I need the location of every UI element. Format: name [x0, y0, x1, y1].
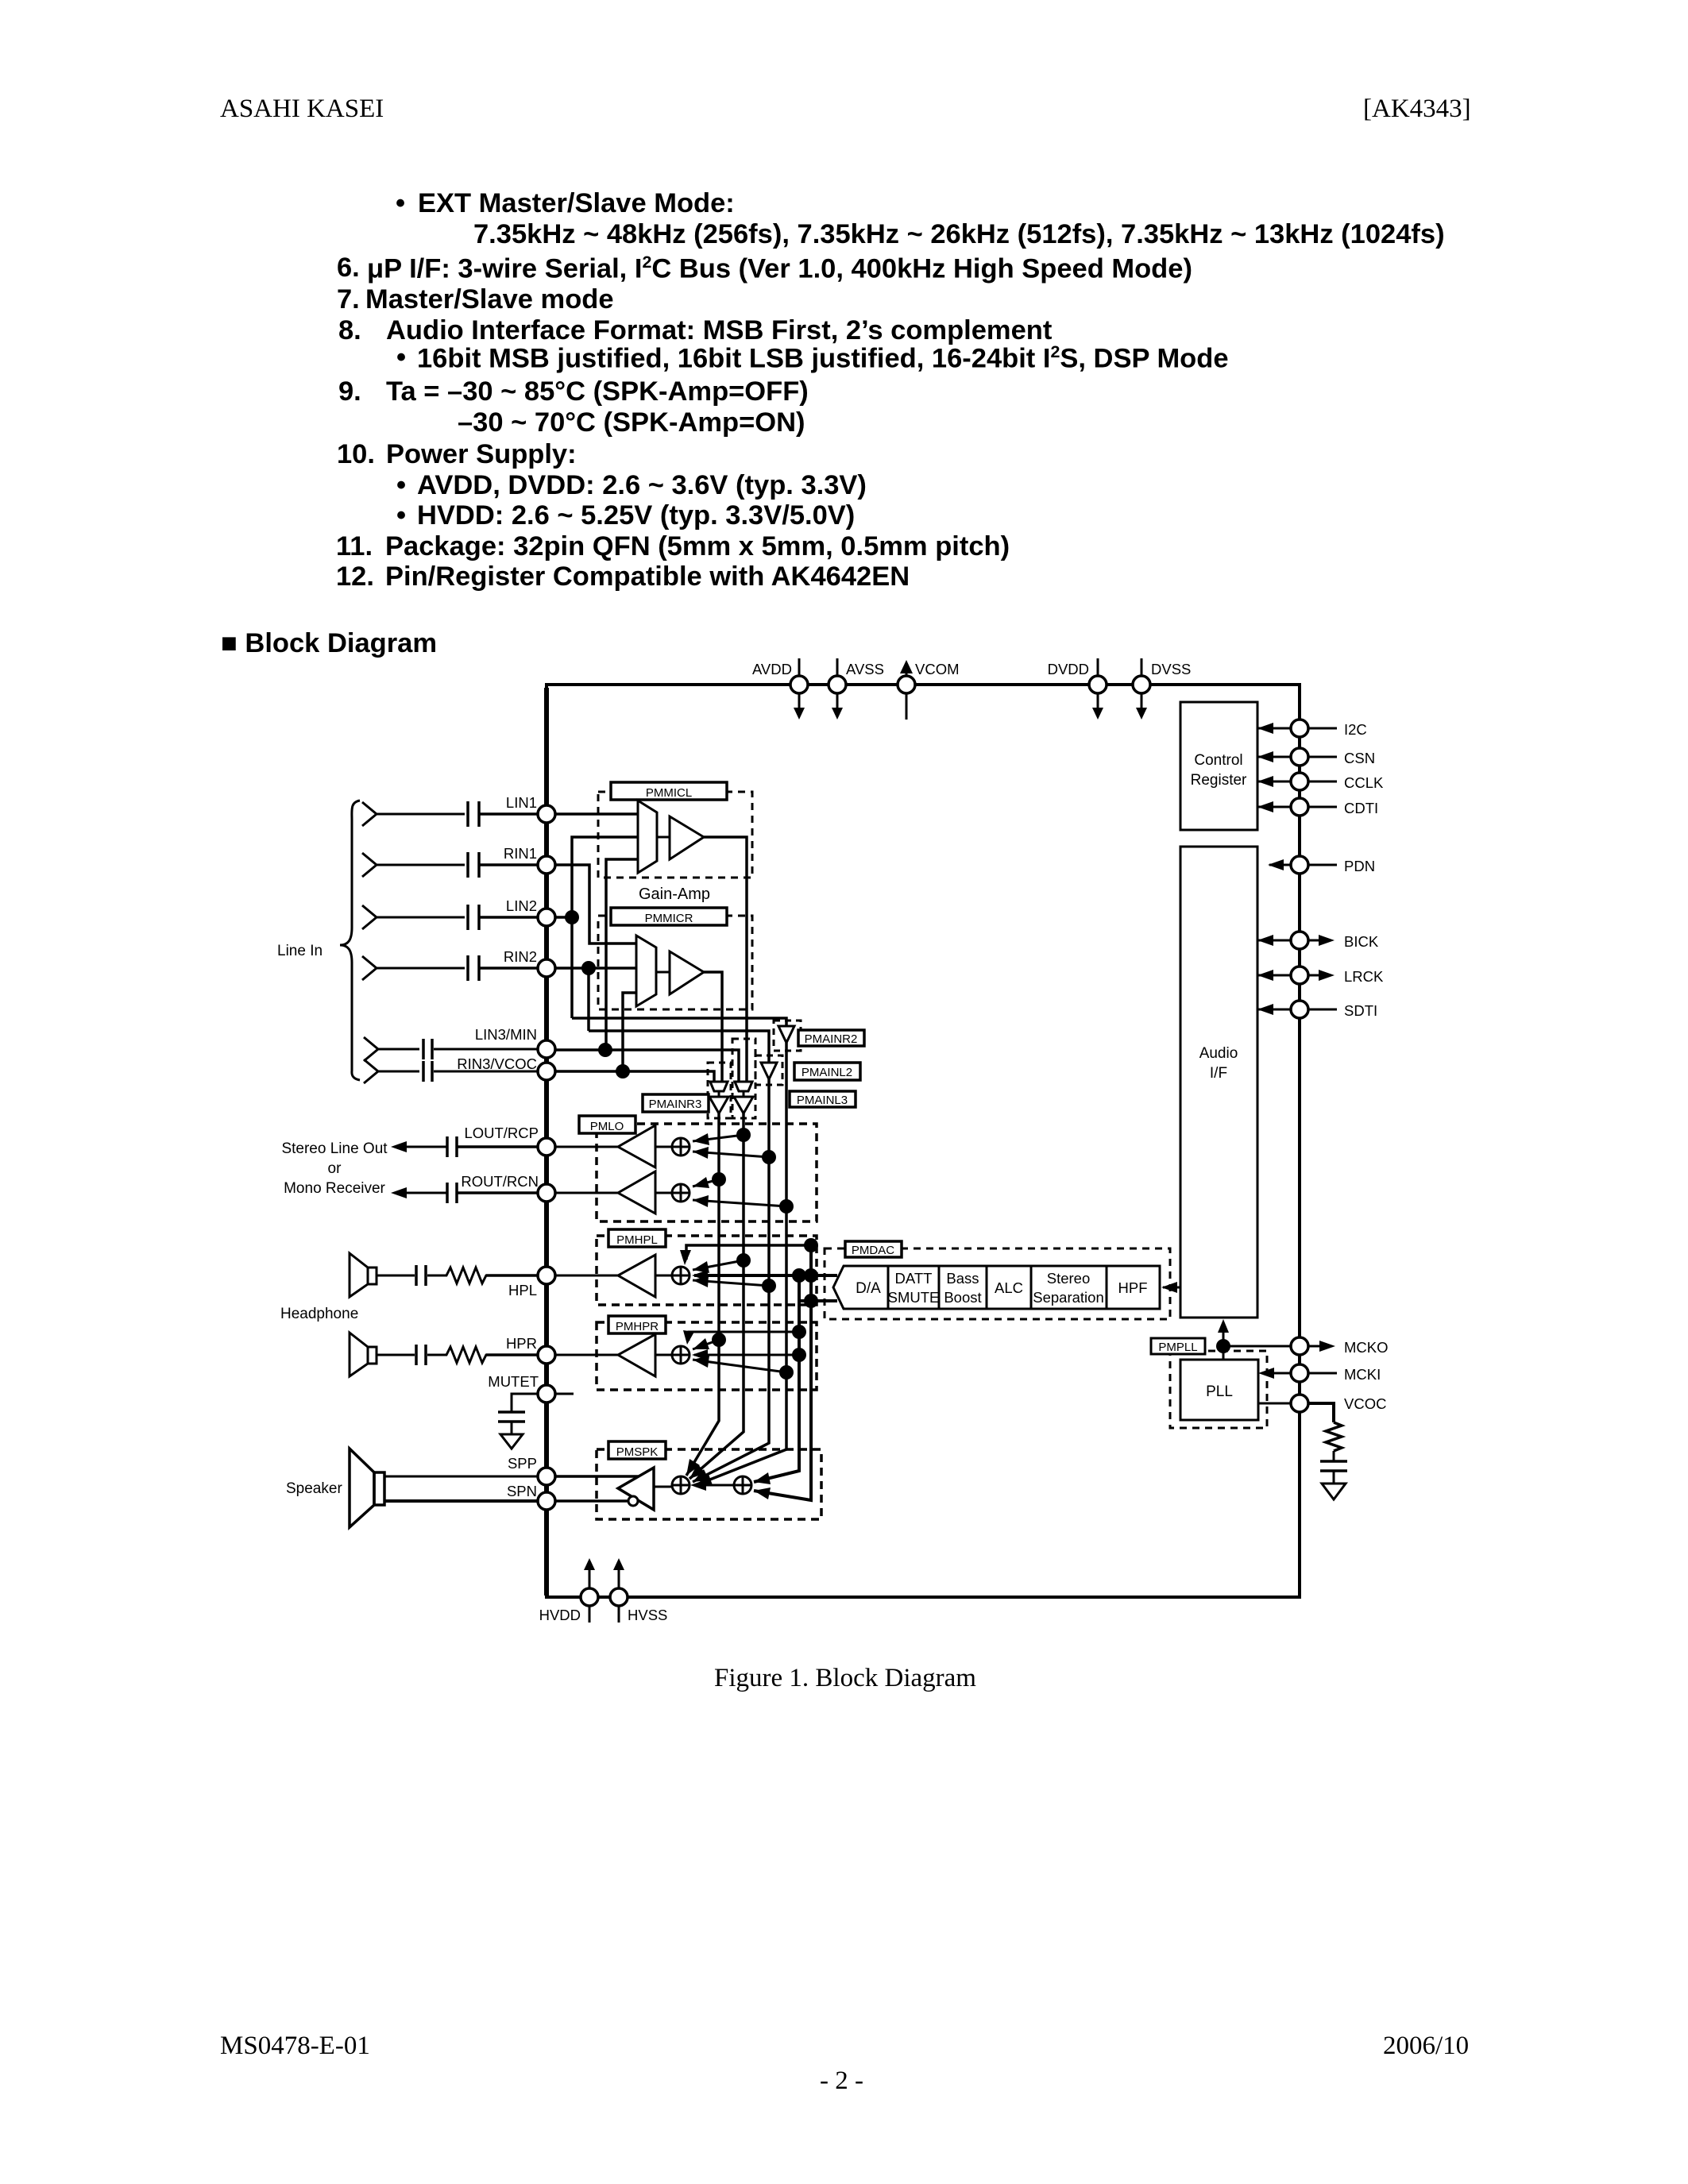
svg-text:SDTI: SDTI — [1344, 1002, 1377, 1019]
pin DVSS — [1133, 658, 1191, 720]
wire bus R3 output vertical — [686, 1113, 719, 1476]
PMMICR label — [611, 908, 727, 925]
capacitor HPL — [416, 1265, 426, 1286]
svg-text:SPN: SPN — [507, 1483, 537, 1499]
svg-text:or: or — [328, 1160, 342, 1177]
wire LIN2 stub — [555, 916, 572, 919]
junction DAC R at HPR node / horizontal arrow — [692, 1348, 806, 1362]
section header — [221, 628, 437, 659]
svg-text:CCLK: CCLK — [1344, 774, 1384, 791]
control register block — [1180, 702, 1257, 830]
wire DAC R output — [799, 1299, 837, 1302]
junction R3 at HPR / branch arrow — [693, 1333, 726, 1349]
wire LOUT to pin — [458, 1145, 538, 1148]
pin SPN — [507, 1483, 555, 1510]
PLL block — [1180, 1360, 1258, 1420]
wire bus L3 output vertical — [689, 1113, 744, 1479]
pin LIN2 — [506, 897, 555, 926]
PMAINR3 label — [643, 1094, 709, 1112]
capacitor RIN1 input — [468, 852, 479, 878]
mic gain trapezoid MICR — [636, 936, 656, 1006]
summing node SPK1 — [671, 1476, 690, 1495]
ground VCOC net — [1322, 1484, 1346, 1499]
capacitor MUTET — [498, 1412, 525, 1434]
summing node LOUT — [671, 1137, 690, 1156]
capacitor LIN2 input — [468, 905, 479, 930]
svg-text:RIN1: RIN1 — [504, 845, 537, 862]
wire HPL external — [377, 1275, 415, 1277]
svg-text:Line In: Line In — [277, 943, 323, 959]
wire SPK2 to SPK1 — [690, 1480, 733, 1491]
wire MICR internal — [656, 971, 670, 974]
svg-text:I/F: I/F — [1210, 1065, 1227, 1082]
wire RIN1 input — [375, 864, 465, 866]
svg-text:DVDD: DVDD — [1048, 661, 1089, 677]
arrow DAC R into SPK2 — [754, 1472, 771, 1484]
junction DAC R at DAC L line — [792, 1268, 806, 1283]
Stereo Separation block — [1031, 1266, 1107, 1309]
headphone speaker icon HPR — [350, 1333, 377, 1376]
wire RIN3 to pin — [434, 1071, 538, 1073]
wire LIN2 to pin — [479, 916, 538, 919]
svg-text:PMAINL2: PMAINL2 — [802, 1066, 852, 1079]
svg-text:Bass: Bass — [946, 1270, 979, 1287]
PMHPR dashed enable box — [597, 1322, 817, 1390]
pin I2C — [1257, 720, 1367, 738]
junction L3 at LOUT / branch arrow — [693, 1128, 751, 1145]
wire DAC R vertical — [754, 1275, 799, 1482]
wire bus L2 output vertical — [693, 1079, 769, 1482]
brace Line In — [340, 801, 360, 1080]
pin AVDD — [752, 658, 808, 720]
wire RIN3 to selector — [555, 1071, 714, 1082]
amp HPR — [555, 1334, 671, 1376]
svg-text:MUTET: MUTET — [488, 1373, 539, 1390]
amp ROUT — [555, 1171, 671, 1214]
svg-text:AVDD: AVDD — [752, 661, 792, 677]
wire DAC L output — [692, 1270, 837, 1281]
PMLO dashed enable box — [597, 1124, 817, 1221]
PMDAC dashed enable box — [825, 1248, 1170, 1319]
pin VCOM — [898, 660, 960, 720]
junction RIN3 net — [616, 1064, 630, 1078]
pin MCKO — [1291, 1337, 1389, 1356]
wire RIN2 to MICR — [555, 967, 636, 970]
D/A block — [833, 1266, 888, 1309]
svg-text:RIN2: RIN2 — [504, 948, 537, 965]
amp MICL — [670, 816, 704, 859]
wire HPL to pin — [486, 1274, 538, 1277]
PMHPL label — [608, 1229, 666, 1247]
header right — [1363, 95, 1471, 124]
wire RIN2 input — [375, 967, 465, 970]
svg-text:Headphone: Headphone — [280, 1306, 358, 1322]
pin HVSS — [610, 1558, 667, 1623]
wire LIN1 to MICL — [555, 812, 638, 816]
PMHPR label — [608, 1316, 666, 1333]
junction DAC R branch HPR top entry — [683, 1325, 806, 1345]
pin BICK — [1257, 932, 1379, 950]
capacitor RIN2 input — [468, 955, 479, 981]
resistor HPL — [427, 1268, 490, 1283]
pin MCKI — [1258, 1364, 1381, 1383]
pin VCOC — [1258, 1395, 1386, 1412]
pin AVSS — [829, 658, 884, 720]
svg-text:Speaker: Speaker — [286, 1480, 342, 1497]
amp SPK — [555, 1468, 671, 1510]
svg-text:PMSPK: PMSPK — [616, 1445, 659, 1459]
pin LIN1 — [506, 794, 555, 823]
output arrow ROUT — [391, 1187, 407, 1198]
DATT SMUTE block — [888, 1266, 940, 1309]
svg-text:ROUT/RCN: ROUT/RCN — [461, 1173, 539, 1190]
svg-text:PMAINR2: PMAINR2 — [805, 1032, 858, 1046]
pin RIN3/VCOC — [457, 1055, 555, 1080]
svg-text:SMUTE: SMUTE — [888, 1289, 940, 1306]
output arrow LOUT — [391, 1141, 407, 1152]
pin RIN1 — [504, 845, 555, 874]
summing node HPR — [671, 1345, 690, 1364]
wire selector feed L2 — [589, 1031, 769, 1063]
svg-text:D/A: D/A — [856, 1280, 881, 1297]
pin PDN — [1268, 856, 1375, 874]
input chevron LIN2 — [362, 905, 377, 929]
svg-text:CSN: CSN — [1344, 750, 1375, 766]
PMAINL3 label — [790, 1091, 856, 1107]
junction RIN2 bus — [581, 961, 596, 975]
svg-text:MCKI: MCKI — [1344, 1366, 1381, 1383]
wire SPN external — [384, 1499, 538, 1503]
pin HVDD — [539, 1558, 598, 1623]
pin LOUT/RCP — [464, 1125, 555, 1156]
wire RIN1 to pin — [479, 863, 538, 866]
svg-text:Stereo: Stereo — [1047, 1270, 1091, 1287]
wire MUTET to cap — [512, 1394, 538, 1412]
arrow R2 into SPK1 — [696, 1474, 713, 1485]
pin SDTI — [1257, 1001, 1377, 1019]
amp HPL — [555, 1255, 671, 1297]
input chevron RIN3/VCOC — [364, 1059, 378, 1083]
pin CCLK — [1257, 773, 1384, 791]
audio interface block — [1180, 847, 1257, 1318]
capacitor LOUT output — [447, 1136, 457, 1157]
amp MICR — [670, 951, 704, 994]
svg-text:LIN1: LIN1 — [506, 794, 537, 811]
wire LIN3 to pin — [434, 1048, 538, 1051]
speaker icon SPP/SPN — [350, 1449, 384, 1527]
pin HPR — [506, 1335, 555, 1364]
svg-text:CDTI: CDTI — [1344, 800, 1378, 816]
figure caption — [714, 1664, 976, 1693]
svg-text:Separation: Separation — [1033, 1289, 1103, 1306]
pin LIN3/MIN — [475, 1026, 555, 1058]
PMAINL2 dashed box — [755, 1055, 782, 1085]
wire LIN2 input — [375, 916, 465, 919]
svg-text:MCKO: MCKO — [1344, 1339, 1389, 1356]
PMAINR2 label — [798, 1030, 864, 1046]
svg-text:PMAINL3: PMAINL3 — [797, 1094, 848, 1107]
wire HPR external — [377, 1354, 415, 1356]
wire RIN1 to MICR upper input — [555, 865, 635, 943]
wire RIN2 bus vertical — [587, 968, 590, 1031]
amp LOUT — [555, 1125, 671, 1167]
PMDAC label — [845, 1241, 902, 1257]
pin LRCK — [1257, 967, 1384, 985]
capacitor LIN1 input — [468, 801, 479, 827]
svg-text:BICK: BICK — [1344, 933, 1379, 950]
input chevron LIN1 — [362, 802, 377, 826]
junction R2 at ROUT / branch arrow — [693, 1195, 794, 1214]
capacitor VCOC net — [1320, 1451, 1347, 1484]
mic gain trapezoid MICL — [638, 801, 657, 873]
svg-text:HPR: HPR — [506, 1335, 537, 1352]
wire MICL output — [704, 837, 747, 1082]
junction LIN2 bus — [565, 910, 579, 924]
wire LOUT output — [404, 1146, 446, 1148]
arrow L3 into SPK1 — [689, 1464, 705, 1479]
PMAINL3 dashed box — [732, 1039, 755, 1118]
svg-text:SPP: SPP — [508, 1455, 537, 1472]
svg-text:LIN2: LIN2 — [506, 897, 537, 914]
pin SPP — [508, 1455, 555, 1485]
svg-text:PMMICR: PMMICR — [645, 912, 693, 925]
wire bus R2 output vertical — [696, 1043, 786, 1485]
input chevron RIN2 — [362, 956, 377, 980]
summing node HPL — [671, 1266, 690, 1285]
svg-text:HVDD: HVDD — [539, 1607, 581, 1623]
summing node SPK2 — [733, 1476, 752, 1495]
arrow R3 into SPK1 — [686, 1459, 700, 1476]
pin MUTET — [488, 1373, 555, 1403]
buffer PMAINR3 — [709, 1091, 728, 1113]
junction L3 at HPL / branch arrow — [693, 1253, 751, 1273]
PMMICL dashed enable box — [598, 792, 752, 878]
PMHPL dashed enable box — [597, 1236, 817, 1305]
PMSPK label — [608, 1441, 666, 1459]
wire SPP external — [384, 1476, 538, 1478]
pin CSN — [1257, 748, 1375, 766]
wire VCOC to RC — [1308, 1403, 1334, 1422]
svg-text:HVSS: HVSS — [628, 1607, 667, 1623]
pin HPL — [508, 1267, 555, 1298]
arrow DAC L into SPK2 — [754, 1488, 771, 1499]
buffer PMAINR2 — [778, 1026, 794, 1043]
wire LIN2 bus to MICL mid input — [572, 837, 638, 1018]
svg-text:LIN3/MIN: LIN3/MIN — [475, 1026, 537, 1043]
svg-text:RIN3/VCOC: RIN3/VCOC — [457, 1055, 537, 1072]
junction R2 at HPR / branch arrow — [693, 1356, 794, 1379]
junction MCKO net — [1216, 1339, 1230, 1353]
header left — [220, 95, 384, 124]
wire LIN3 input — [377, 1048, 419, 1051]
PMAINL2 label — [794, 1063, 860, 1080]
svg-text:PMDAC: PMDAC — [852, 1244, 894, 1257]
svg-text:PDN: PDN — [1344, 858, 1375, 874]
summing node ROUT — [671, 1183, 690, 1202]
wire MUTET stub — [555, 1393, 574, 1395]
svg-text:Gain-Amp: Gain-Amp — [639, 886, 710, 903]
wire MCKO to PLL and Audio I/F — [1218, 1319, 1291, 1360]
pin ROUT/RCN — [461, 1173, 555, 1202]
svg-text:AVSS: AVSS — [846, 661, 884, 677]
svg-text:PMLO: PMLO — [590, 1120, 624, 1133]
svg-text:ALC: ALC — [995, 1279, 1023, 1296]
chip outline box — [547, 685, 1300, 1597]
svg-text:LOUT/RCP: LOUT/RCP — [464, 1125, 539, 1141]
svg-text:PLL: PLL — [1206, 1383, 1233, 1400]
svg-text:HPF: HPF — [1118, 1279, 1148, 1296]
input chevron LIN3/MIN — [364, 1037, 378, 1061]
wire LIN3 to selector — [555, 1050, 739, 1082]
wire ROUT output — [404, 1192, 446, 1194]
svg-text:PMPLL: PMPLL — [1158, 1341, 1197, 1354]
svg-text:PMMICL: PMMICL — [646, 786, 692, 800]
HPF block — [1107, 1266, 1160, 1309]
junction R3 at ROUT / branch arrow — [693, 1172, 726, 1188]
PMSPK dashed enable box — [597, 1449, 821, 1519]
pin CDTI — [1257, 798, 1378, 816]
mixer trapezoid PMAINL3 — [735, 1082, 752, 1091]
resistor VCOC net — [1326, 1422, 1342, 1451]
wire MICL internal — [657, 836, 670, 839]
svg-text:PMAINR3: PMAINR3 — [649, 1098, 702, 1111]
junction HPL top feed — [804, 1238, 818, 1252]
ground MUTET — [500, 1434, 523, 1449]
svg-text:PMHPR: PMHPR — [616, 1320, 659, 1333]
wire RIN3 input — [377, 1071, 419, 1073]
svg-text:HPL: HPL — [508, 1282, 537, 1298]
wire MICR second input from RIN3 net — [623, 993, 636, 1071]
svg-text:VCOM: VCOM — [915, 661, 960, 677]
wire selector feed R2 — [572, 1018, 786, 1026]
buffer PMAINL2 — [761, 1063, 777, 1079]
junction LIN3 net — [598, 1043, 612, 1057]
svg-text:Boost: Boost — [944, 1289, 981, 1306]
footer — [220, 2032, 370, 2061]
PMAINR2 dashed box — [774, 1021, 801, 1051]
ALC block — [987, 1266, 1031, 1309]
junction DAC L at DAC R line — [804, 1294, 818, 1308]
PMAINR3 dashed box — [708, 1063, 731, 1118]
wire HPR to pin — [486, 1353, 538, 1356]
wire LIN1 input — [375, 813, 465, 816]
capacitor LIN3 input — [423, 1039, 432, 1059]
junction L2 at LOUT / branch arrow — [693, 1147, 776, 1164]
junction DAC L at DAC L line — [804, 1268, 818, 1283]
PMLO label — [579, 1116, 635, 1133]
svg-text:Stereo Line Out: Stereo Line Out — [281, 1140, 388, 1157]
PLL dashed enable box — [1170, 1351, 1267, 1428]
capacitor ROUT output — [447, 1183, 457, 1203]
svg-text:I2C: I2C — [1344, 721, 1367, 738]
wire RIN2 to pin — [479, 967, 538, 970]
Bass Boost block — [939, 1266, 987, 1309]
headphone speaker icon HPL — [350, 1253, 377, 1297]
wire HPL top feed — [680, 1245, 811, 1265]
resistor HPR — [427, 1347, 490, 1363]
PMPLL label — [1151, 1338, 1205, 1354]
mixer trapezoid PMAINR3 — [710, 1082, 728, 1091]
svg-text:LRCK: LRCK — [1344, 968, 1384, 985]
svg-text:Audio: Audio — [1199, 1045, 1238, 1062]
arrow L2 into SPK1 — [693, 1469, 709, 1482]
svg-text:DVSS: DVSS — [1151, 661, 1191, 677]
wire Audio I/F to HPF — [1161, 1282, 1180, 1293]
input chevron RIN1 — [362, 853, 377, 877]
wire DAC L vertical — [754, 1245, 811, 1500]
svg-text:PMHPL: PMHPL — [616, 1233, 658, 1247]
buffer PMAINL3 — [734, 1091, 753, 1113]
PMMICL label — [611, 782, 727, 800]
wire MICR output — [704, 972, 722, 1082]
PMMICR dashed enable box — [598, 916, 752, 1009]
svg-text:Control: Control — [1194, 752, 1242, 769]
junction L2 at HPL / branch arrow — [693, 1275, 776, 1293]
svg-text:Mono Receiver: Mono Receiver — [284, 1180, 385, 1197]
capacitor RIN3 input — [423, 1061, 432, 1082]
wire MICL second input from LIN3 net — [606, 859, 638, 1050]
wire LIN1 to pin — [479, 812, 538, 816]
svg-text:DATT: DATT — [895, 1270, 933, 1287]
pin RIN2 — [504, 948, 555, 977]
pin DVDD — [1048, 658, 1107, 720]
wire ROUT to pin — [458, 1191, 538, 1194]
svg-text:VCOC: VCOC — [1344, 1395, 1386, 1412]
body list — [396, 188, 405, 219]
capacitor HPR — [416, 1345, 426, 1365]
svg-text:Register: Register — [1191, 772, 1247, 789]
